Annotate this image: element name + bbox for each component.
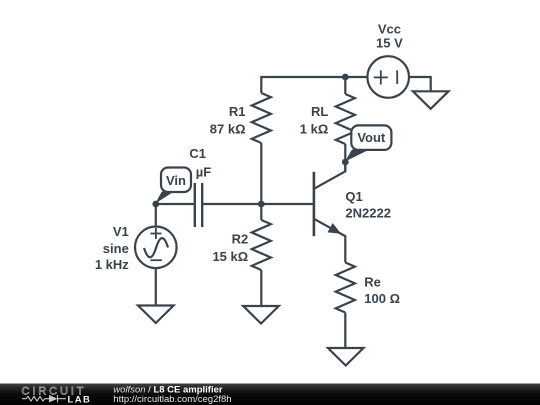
wire Re bottom to ground [344,313,346,349]
voltage source Vcc [367,56,409,98]
svg-text:RL: RL [311,104,328,119]
wire RL bottom to collector [344,144,346,171]
flag Vin tail [155,192,174,204]
wire source right terminal to ground stub [409,77,431,91]
junction node: collector node [342,159,349,166]
resistor RL [336,94,355,144]
svg-text:1 kHz: 1 kHz [95,257,129,272]
junction node: input node [152,201,159,208]
wire R2 top [260,204,262,220]
ground right of Vcc [413,91,449,109]
ground under R2 [243,306,279,324]
svg-text:Vcc: Vcc [378,22,401,37]
junction node: base divider node [258,201,265,208]
svg-text:R1: R1 [229,104,246,119]
wire V1 bottom to ground [155,268,157,306]
transistor Q1 emitter arrow [328,223,342,234]
wire C1 right plate to base of Q1 [203,203,314,205]
resistor Re [336,263,355,313]
svg-text:Q1: Q1 [345,189,362,204]
svg-text:sine: sine [103,241,129,256]
svg-text:15 V: 15 V [376,36,403,51]
wire top rail from R1 to Vcc node [261,77,345,93]
flag Vin box [161,168,191,193]
ground under Re [328,348,364,366]
wire R1 bottom to base node [260,143,262,204]
svg-text:Vout: Vout [357,130,386,145]
svg-text:Vin: Vin [166,173,186,188]
svg-text:Re: Re [364,275,381,290]
svg-text:LAB: LAB [68,395,92,405]
ground under V1 [138,306,174,324]
transistor Q1 collector [314,162,345,189]
svg-text:2N2222: 2N2222 [345,206,391,221]
svg-text:1 kΩ: 1 kΩ [300,121,329,136]
footer logo diode [49,395,58,403]
wire RL top [344,77,346,94]
resistor R1 [252,93,271,143]
svg-text:C1: C1 [189,146,206,161]
svg-text:100 Ω: 100 Ω [364,291,400,306]
voltage source V1 (sine) [135,227,177,269]
transistor Q1 emitter [314,219,345,263]
svg-text:R2: R2 [232,232,249,247]
svg-text:87 kΩ: 87 kΩ [210,121,246,136]
wire Vcc node to source left terminal [345,76,367,78]
transistor Q1 base bar [313,172,316,236]
wire V1 top to input node [155,204,157,227]
flag Vout box [351,125,391,149]
footer logo schematic line [22,395,66,402]
flag Vout tail [345,150,370,162]
svg-text:µF: µF [196,164,211,179]
footer bar [0,384,540,405]
svg-text:15 kΩ: 15 kΩ [212,249,248,264]
capacitor C1 [195,183,202,227]
resistor R2 [252,220,271,270]
wire input node to C1 left plate [156,203,194,205]
junction node: Vcc rail node [342,74,349,81]
svg-text:V1: V1 [113,224,129,239]
wire R2 bottom to ground [260,270,262,306]
svg-text:http://circuitlab.com/ceg2f8h: http://circuitlab.com/ceg2f8h [113,394,231,405]
